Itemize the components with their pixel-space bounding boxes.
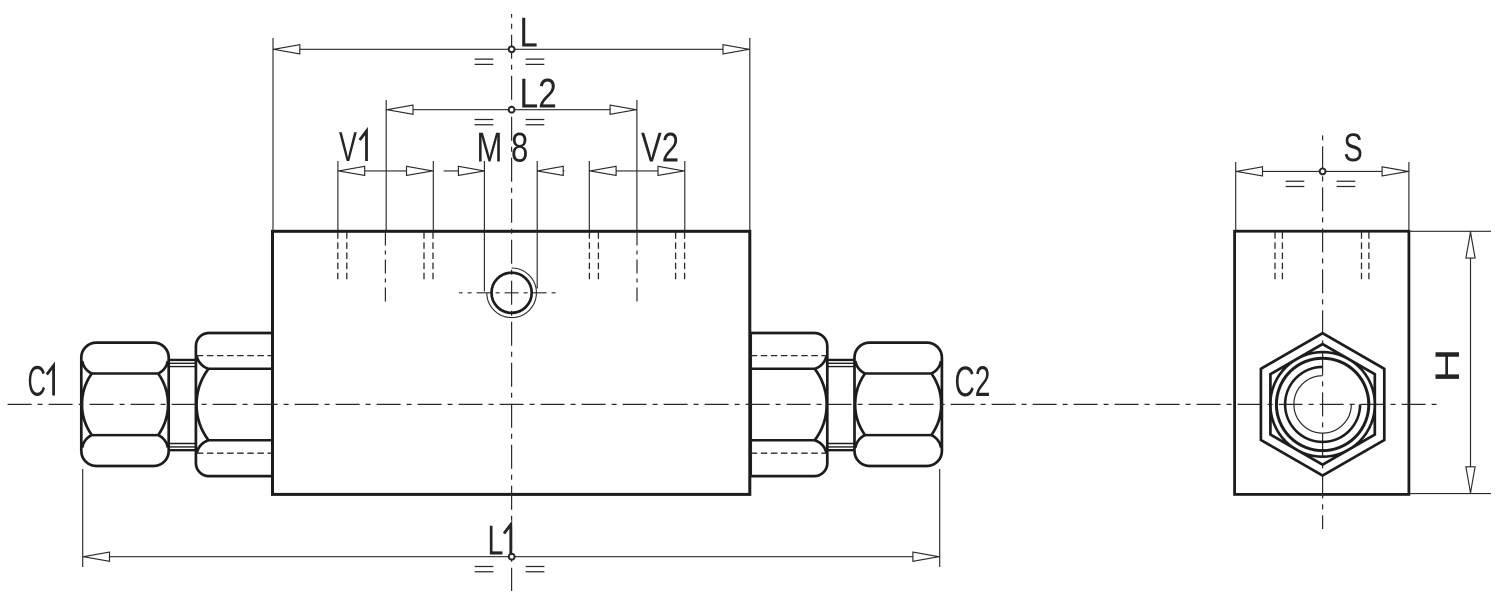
svg-text:S: S [1344,125,1363,170]
svg-text:C2: C2 [955,357,991,405]
svg-text:L2: L2 [520,71,557,117]
svg-text:C: C [28,358,46,405]
svg-text:V2: V2 [641,124,679,171]
svg-text:L: L [488,516,504,564]
svg-text:M 8: M 8 [477,124,529,171]
svg-text:V: V [339,124,357,170]
svg-text:H: H [1429,348,1467,382]
svg-text:L: L [520,9,538,56]
